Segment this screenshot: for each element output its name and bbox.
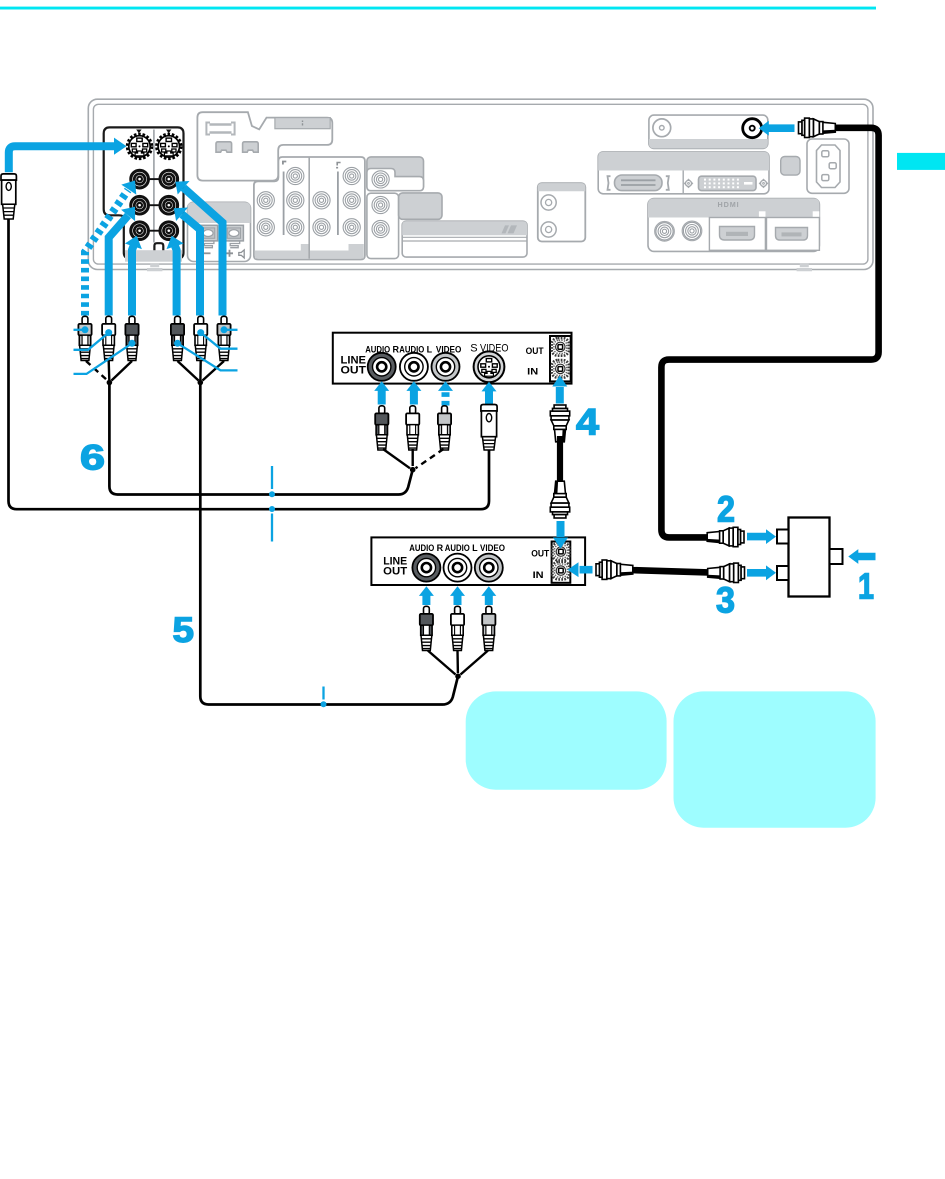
svg-text:2: 2 [717, 489, 735, 530]
svg-text:OUT: OUT [531, 548, 549, 559]
component group B corner mark [336, 163, 341, 168]
arrow A-sv: S-video plug to TV S-video port 1 [9, 138, 127, 173]
component jack B2 [313, 192, 330, 209]
wire fan panel1 group [383, 449, 413, 468]
speaker terminal block [188, 202, 251, 261]
panel2 jack audio R [412, 554, 440, 582]
AC power inlet [807, 139, 849, 193]
RCA plug TVgroup L3 (audio R, dark) [125, 316, 138, 360]
arrow A2: into splitter upper port [747, 529, 776, 544]
AV jack link row3 [149, 230, 159, 232]
AV jack row1 right [160, 170, 178, 188]
dual jack panel [538, 183, 586, 241]
DVI screw right [760, 179, 768, 187]
CAM info strip [275, 118, 330, 129]
component jack A4 [257, 219, 274, 236]
antenna panel [649, 115, 768, 148]
svg-text:L: L [472, 543, 478, 553]
F-connector on antenna jack [799, 118, 836, 137]
RGB connector body [615, 175, 663, 191]
svg-text:OUT: OUT [341, 365, 367, 377]
HDMI panel gray top [648, 199, 819, 218]
F-connector plug 3 [708, 563, 745, 582]
HDMI audio jack R [682, 221, 702, 241]
splitter port upper [777, 530, 789, 544]
arrow A-ant: to antenna jack [759, 121, 795, 136]
callout dot R1 [174, 340, 181, 347]
arrow A-L3: audio R plug to AV jack row3 left [125, 236, 142, 316]
arrow P1-L: plug to panel1 audio L jack [406, 381, 421, 404]
coax4 upper F-connector (points up to panel1 IN) [550, 405, 569, 442]
cable tick t3 [321, 687, 327, 708]
panel1 jack audio L [400, 353, 428, 381]
wire fan panel1 video dashed [416, 449, 444, 468]
CAM card slot 2 [243, 142, 259, 152]
RCA plug panel2 audio R [420, 606, 433, 650]
wire W-svideo: left S-video plug cable to panel1 S-video plug [9, 219, 490, 509]
arrow P2-L: plug to panel2 audio L jack [450, 586, 465, 605]
panel1 RF OUT connector [552, 338, 569, 356]
panel1 S-video port [474, 351, 505, 382]
splitter port lower [777, 566, 789, 580]
panel1 RF IN connector [552, 360, 569, 378]
wire coax panel2-IN to plug 3 [628, 570, 712, 573]
callout line L1 [74, 329, 86, 331]
HDMI panel [648, 199, 819, 252]
F-connector on panel2 IN [596, 560, 633, 579]
component jack A2 [257, 192, 274, 209]
svg-text:IN: IN [533, 570, 544, 581]
RCA plug TVgroup R1 (audio R, dark) [171, 316, 184, 360]
right cluster upper white cutout [367, 169, 424, 191]
dual jack 2 [541, 222, 556, 237]
TV S-video port 2 [156, 134, 181, 159]
svg-text:VIDEO: VIDEO [480, 543, 505, 553]
speaker block gray strip [188, 202, 251, 223]
VCR panel 1 box [333, 333, 572, 384]
AV jack link row2 [149, 204, 159, 206]
TV foot right [797, 264, 812, 271]
component jack A5 [287, 219, 304, 236]
svg-text:AUDIO: AUDIO [445, 543, 470, 553]
panel1 jack video [432, 353, 460, 381]
RGB connector bracket left [608, 176, 611, 190]
dual jack 1 [541, 195, 556, 210]
chapter tab [897, 153, 945, 170]
HDMI port 1 bar [726, 232, 748, 236]
wire W6: TV AV plugs junction to panel1 AV junction [109, 383, 412, 495]
arrow A-R1: plug to AV jack row1 right [175, 181, 222, 316]
AV jack block divider [153, 130, 155, 243]
svg-text:OUT: OUT [383, 566, 407, 578]
arrow P1-SV: plug to panel1 S-video port [482, 382, 497, 405]
component jack B1 [343, 167, 360, 184]
AC inlet slot 3 [822, 175, 829, 181]
RGB connector lines [621, 180, 656, 185]
arrow A-dash: video plug to AV jack row1 left (dashed) [85, 181, 136, 316]
right cluster jack 2 [372, 196, 389, 213]
VGA/DVI divider [682, 171, 684, 194]
callout line L2 [74, 333, 109, 350]
speaker clip minus [199, 225, 218, 247]
S-video plug left [1, 174, 16, 219]
antenna jack left [653, 119, 671, 137]
AV jack block gray base plate [125, 250, 182, 262]
S-video plug panel1 [481, 405, 497, 451]
TV rear panel inner outline [93, 104, 868, 264]
svg-text:AUDIO: AUDIO [409, 543, 434, 553]
arrow P2-OUT: coax down into panel2 OUT [553, 521, 568, 549]
AC inlet slot 2 [829, 163, 836, 169]
arrow A-R3: plug to AV jack row3 right [167, 236, 184, 316]
callout dot R2 [197, 329, 204, 336]
arrow P1-V: plug to panel1 video jack (dashed) [438, 381, 453, 405]
TV foot left [147, 264, 162, 271]
junction node left group [107, 380, 113, 386]
arrow P1-R: plug to panel1 audio R jack [374, 381, 389, 404]
long bar gray strip [402, 221, 527, 235]
callout dot L1 [82, 326, 89, 333]
svg-text:5: 5 [173, 611, 195, 650]
callout line R3 [224, 329, 238, 331]
splitter port right [830, 549, 843, 564]
antenna jack right (highlighted) [743, 119, 762, 138]
svg-text:HDMI: HDMI [718, 200, 740, 209]
component jack A1 [287, 167, 304, 184]
highlight box 1 [466, 691, 667, 789]
wire fan left group: audio plugs [109, 361, 132, 381]
CAM module panel outline [197, 112, 332, 180]
component group A corner mark [283, 162, 286, 165]
HDMI port 2 connector [776, 228, 808, 241]
power inlet bracket [781, 157, 800, 176]
component jack B3 [343, 192, 360, 209]
CAM info mark [302, 121, 304, 126]
TV rear panel outer outline [88, 99, 873, 269]
TV S-video port 1 [127, 134, 152, 159]
arrow P2-V: plug to panel2 video jack [481, 586, 496, 605]
DVI connector body [699, 176, 757, 190]
svg-text:L: L [427, 345, 433, 355]
callout line R1 [178, 343, 238, 370]
RCA plug panel1 audio L [406, 406, 419, 450]
right cluster lower white panel [367, 193, 399, 258]
VGA/DVI panel gray strip [598, 152, 769, 171]
S-video port marker left [136, 130, 141, 134]
RCA plug TVgroup L2 (audio L, white) [102, 316, 115, 360]
AV jack row2 left [131, 196, 149, 214]
svg-text:1: 1 [858, 566, 874, 607]
F-connector plug 2 [707, 527, 744, 546]
arrow A-L2: audio L plug to AV jack row2 left [109, 207, 135, 316]
HDMI port 2 frame [767, 218, 820, 251]
panel1 jack audio R [368, 353, 396, 381]
speaker icon [239, 250, 244, 258]
RF splitter body [789, 518, 830, 597]
arrow P1-IN: coax to panel1 IN [552, 376, 567, 404]
coax4 cable [557, 436, 563, 485]
right cluster lower gray block [399, 193, 442, 219]
arrow A-R2: plug to AV jack row2 right [174, 208, 200, 316]
AV jack row3 right [160, 222, 178, 240]
component jack A3 [287, 192, 304, 209]
panel2 jack video [475, 554, 503, 582]
RCA plug TVgroup R3 (video, gray) [217, 316, 230, 360]
svg-text:S: S [470, 343, 477, 355]
component video panel (left+right groups) [254, 157, 365, 260]
DVI pin grid [704, 179, 739, 189]
component jack B5 [343, 219, 360, 236]
HDMI port 2 bar [782, 232, 802, 236]
S-video port marker right [166, 130, 171, 134]
right cluster upper jack [372, 171, 389, 188]
arrow A3: into splitter lower port [747, 565, 776, 580]
coax4 lower F-connector (points down to panel2 OUT) [550, 481, 569, 518]
AV jack row1 left [131, 170, 149, 188]
RGB connector bracket right [666, 176, 669, 190]
panel1 RF box [550, 336, 571, 381]
arrow A1: into splitter right port [848, 549, 875, 564]
AV jack block outline [104, 127, 184, 258]
long bar logo mark [502, 225, 518, 233]
speaker clip plus [224, 225, 243, 247]
RCA plug panel1 video [438, 406, 451, 450]
arrow P2-R: plug to panel2 audio R jack [419, 586, 434, 605]
wire fan panel2 group [428, 651, 488, 675]
RCA plug TVgroup L1 (video, gray) [78, 316, 91, 360]
long interface bar panel [402, 221, 527, 257]
callout dot L2 [105, 329, 112, 336]
top header rule [0, 7, 876, 10]
wire fan right group [178, 361, 225, 381]
junction node right group [198, 380, 204, 386]
long bar inner lines [402, 237, 527, 241]
panel2 jack audio L [444, 554, 472, 582]
AV jack row3 left [131, 222, 149, 240]
AV jack row2 right [160, 196, 178, 214]
svg-text:4: 4 [576, 402, 599, 443]
VGA/DVI panel [598, 152, 769, 194]
CAM card bracket icon [206, 123, 234, 135]
component jack B4 [313, 219, 330, 236]
right cluster upper gray block [367, 157, 424, 191]
junction node panel1 group [410, 467, 416, 473]
AV jack link row1 [149, 178, 159, 180]
component panel divider [308, 158, 310, 259]
VCR panel 2 box [371, 537, 585, 585]
cable tick t1 [269, 466, 275, 497]
highlight box 2 [674, 691, 876, 827]
callout dot R3 [221, 326, 228, 333]
coax cable antenna-to-splitter (label 2 run) [661, 128, 878, 538]
AC inlet socket outline [817, 145, 841, 188]
svg-text:OUT: OUT [526, 346, 544, 357]
callout line L3 [74, 343, 133, 374]
cable tick t2 [269, 506, 275, 542]
wire W5: TV right plugs junction to panel2 AV junction [200, 383, 458, 705]
RCA plug panel2 video [482, 606, 495, 650]
panel2 RF OUT connector [552, 543, 569, 561]
arrow A-in2: into panel2 IN [568, 562, 593, 577]
antenna panel gray strip [649, 139, 768, 148]
panel2 RF IN connector [552, 562, 569, 580]
HDMI port 1 frame [709, 218, 765, 251]
wire fan left group: video plug dashed [86, 361, 108, 381]
component group A separator line [283, 172, 285, 236]
RCA plug panel2 audio L [451, 606, 464, 650]
dual jack panel strip [538, 183, 586, 191]
HDMI audio jack L [655, 222, 675, 242]
svg-text:R: R [437, 543, 444, 553]
callout line R2 [201, 333, 238, 349]
CAM card slot 1 [216, 142, 232, 152]
HDMI port 1 connector [720, 227, 755, 241]
RCA plug panel1 audio R [375, 406, 388, 450]
panel2 RF box [552, 542, 571, 583]
speaker plus label [226, 250, 233, 257]
AC inlet slot 1 [822, 151, 829, 157]
speaker minus label [204, 252, 211, 254]
DVI flat pin [744, 182, 753, 185]
svg-text:6: 6 [80, 439, 105, 478]
DVI screw left [685, 179, 693, 187]
component group B separator line [337, 172, 339, 236]
component panel bottom gray strip [255, 244, 364, 258]
RCA plug TVgroup R2 (audio L, white) [194, 316, 207, 360]
svg-text:3: 3 [716, 580, 735, 621]
junction node panel2 group [455, 673, 461, 679]
svg-text:IN: IN [527, 366, 538, 377]
callout dot L3 [129, 340, 136, 347]
right cluster jack 3 [372, 220, 389, 237]
